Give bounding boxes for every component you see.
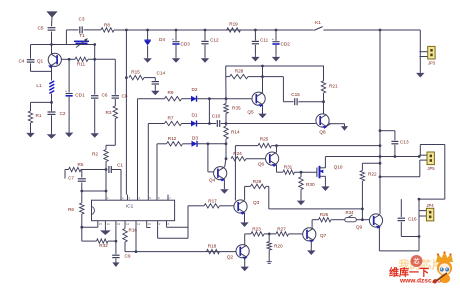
svg-text:Q6: Q6 [258,162,265,167]
svg-text:Q10: Q10 [334,165,343,170]
svg-text:JP4: JP4 [426,203,434,208]
svg-text:C14: C14 [157,71,166,76]
svg-text:R8: R8 [104,23,110,28]
svg-text:R18: R18 [208,244,217,249]
svg-text:JP3: JP3 [428,61,436,66]
svg-text:C5: C5 [38,26,44,31]
svg-text:15: 15 [99,222,103,226]
svg-text:C15: C15 [291,92,300,97]
svg-text:R19: R19 [229,22,238,27]
svg-text:C7: C7 [68,176,74,181]
svg-text:L1: L1 [36,83,42,88]
svg-text:R23: R23 [252,227,261,232]
svg-text:IC1: IC1 [126,204,134,210]
svg-text:C13: C13 [400,140,409,145]
svg-text:D3: D3 [192,136,198,141]
svg-text:R20: R20 [274,244,283,249]
svg-text:10: 10 [148,222,152,226]
svg-text:13: 13 [117,222,121,226]
svg-text:12: 12 [126,222,130,226]
svg-text:R9: R9 [168,90,174,95]
svg-text:R25: R25 [260,137,269,142]
svg-text:R34: R34 [346,210,354,215]
svg-text:R11: R11 [77,62,86,67]
svg-text:R35: R35 [232,106,241,111]
svg-text:R32: R32 [99,243,108,248]
svg-text:Q3: Q3 [253,200,260,205]
svg-text:芯: 芯 [413,258,420,266]
svg-text:C6: C6 [102,93,108,98]
svg-text:Q7: Q7 [320,233,327,238]
svg-text:C3: C3 [79,17,85,22]
svg-text:R21: R21 [329,84,338,89]
svg-text:R5: R5 [78,162,84,167]
svg-text:R26: R26 [320,212,329,217]
svg-text:R12: R12 [168,136,177,141]
svg-text:R7: R7 [168,116,174,121]
svg-text:T1: T1 [79,33,85,38]
svg-text:Q1: Q1 [37,59,44,64]
svg-text:C4: C4 [19,59,25,64]
svg-text:R3: R3 [106,110,112,115]
svg-text:R27: R27 [277,227,286,232]
svg-text:CD3: CD3 [181,42,191,47]
svg-text:R28: R28 [235,69,244,74]
svg-text:K1: K1 [315,20,321,25]
svg-text:C11: C11 [260,38,269,43]
svg-text:R17: R17 [208,199,217,204]
svg-text:C10: C10 [212,114,221,119]
svg-text:D1: D1 [192,113,198,118]
svg-text:C1: C1 [117,163,123,168]
svg-text:C16: C16 [408,217,417,222]
svg-text:C2: C2 [60,111,66,116]
svg-text:R2: R2 [92,152,98,157]
svg-text:R29: R29 [253,179,262,184]
svg-text:C12: C12 [210,38,219,43]
svg-text:JP5: JP5 [427,166,435,171]
svg-text:Q4: Q4 [209,178,216,183]
svg-text:Q5: Q5 [247,110,254,115]
svg-text:11: 11 [137,222,140,226]
svg-text:C8: C8 [122,94,128,99]
svg-text:D4: D4 [159,37,165,42]
svg-text:R22: R22 [368,172,377,177]
svg-text:R14: R14 [231,130,240,135]
svg-text:R30: R30 [306,182,315,187]
svg-text:Q9: Q9 [356,225,363,230]
svg-text:R31: R31 [284,165,293,170]
svg-text:Q2: Q2 [227,255,234,260]
svg-text:D2: D2 [192,87,198,92]
svg-text:R1: R1 [36,113,42,118]
svg-text:R6: R6 [68,207,74,212]
svg-text:C9: C9 [125,254,131,259]
svg-text:14: 14 [106,222,110,226]
svg-text:CD2: CD2 [281,42,291,47]
svg-text:R15: R15 [131,70,140,75]
svg-text:CD1: CD1 [75,93,85,98]
svg-text:R24: R24 [233,151,242,156]
svg-text:Q8: Q8 [319,130,326,135]
